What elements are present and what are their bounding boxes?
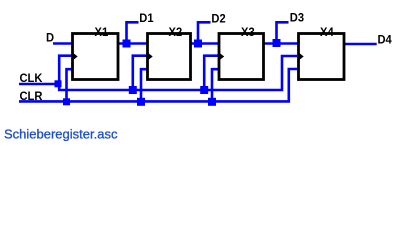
svg-text:X2: X2 [169, 27, 183, 39]
svg-text:D: D [46, 32, 54, 44]
svg-text:X1: X1 [95, 26, 109, 38]
svg-text:Schieberegister.asc: Schieberegister.asc [4, 126, 118, 141]
svg-text:D3: D3 [290, 12, 305, 24]
svg-text:X3: X3 [241, 27, 255, 39]
svg-text:D1: D1 [139, 13, 154, 25]
svg-text:CLK: CLK [20, 73, 44, 85]
svg-text:CLR: CLR [20, 90, 44, 102]
svg-text:D2: D2 [211, 13, 225, 25]
svg-text:D4: D4 [378, 34, 393, 46]
svg-text:X4: X4 [320, 26, 334, 38]
